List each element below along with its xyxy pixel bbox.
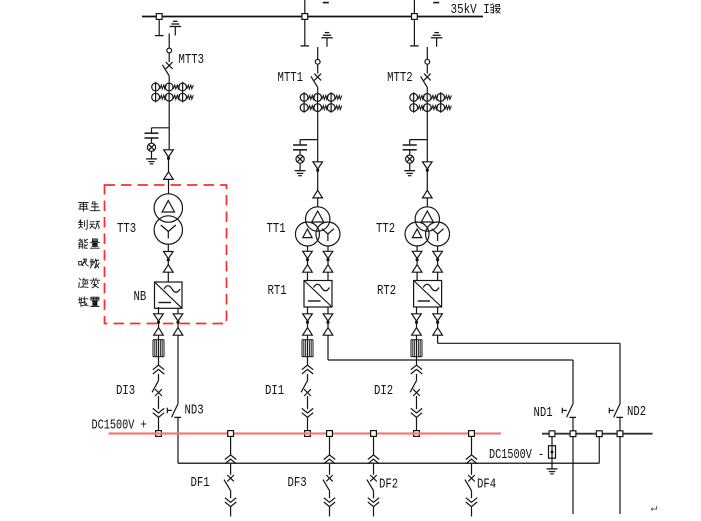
drawout contact (down) RT2 neg [433, 314, 443, 321]
drawout chevron contacts (down) DF3 [324, 498, 335, 503]
wire MTT3 contact gap [168, 159, 170, 172]
wire MTT3 circle to breaker [168, 53, 170, 62]
disconnector stem below MTT3 node [155, 19, 164, 35]
current transformer group MTT2 [410, 92, 452, 113]
feeder breaker DF2 [367, 475, 377, 490]
svg-text:DF2: DF2 [379, 476, 398, 492]
wire DF4 tail [471, 507, 473, 517]
wire MTT2 circle to breaker [426, 64, 428, 73]
circuit breaker MTT3 [162, 62, 172, 75]
drawout chevron contacts (down) DI1 [302, 408, 313, 413]
drawout contact (up) RT1 neg [323, 328, 333, 336]
wire ND3 to negative bus corner [177, 417, 179, 463]
wire TT1 left secondary [307, 246, 309, 251]
drawout contact (down) MTT2 [423, 162, 433, 169]
svg-text:MTT2: MTT2 [387, 70, 413, 86]
wire DF3 down [329, 436, 331, 455]
wire MTT2 to transformer [426, 198, 428, 207]
regenerative braking device boundary (red dashed box) [105, 185, 227, 324]
wire gap DI2 [416, 323, 418, 328]
svg-text:TT1: TT1 [267, 221, 286, 237]
surge capacitor + indicator lamp + earth (MTT3) [145, 128, 170, 164]
wire resistor to chevron DI1 [307, 357, 309, 365]
drawout contact (up) RT2 right in [433, 265, 443, 273]
smoothing reactor (hatched) DI3 column [153, 340, 164, 357]
wire MTT1 contact gap [317, 171, 319, 191]
bus node MTT3 [156, 14, 162, 20]
DC 1500V positive busbar [109, 432, 501, 434]
svg-text:35kV I: 35kV I [451, 2, 490, 18]
wire fuse to earth [551, 458, 553, 469]
svg-text:DC1500V -: DC1500V - [489, 446, 544, 462]
DC bus node DI1 column [305, 431, 311, 437]
wire ND1 drop [572, 360, 574, 404]
wire DF2 to chevron [373, 490, 375, 498]
wire DF4 to chevron [471, 490, 473, 498]
drawout contact (down) TT2 left [412, 251, 422, 258]
wire into NB box [167, 272, 169, 282]
wire MTT1 to transformer [317, 198, 319, 207]
wire gap RT2 neg [437, 323, 439, 328]
wire TT2 left secondary [416, 246, 418, 251]
wire resistor to chevron DI3 [158, 357, 160, 365]
DC bus node DF3 [327, 431, 333, 437]
wire RT1 neg down [327, 335, 329, 360]
incoming line riser to MTT2 bus node [413, 0, 415, 17]
disconnector stem below MTT1 node [301, 19, 310, 46]
svg-text:DI1: DI1 [265, 383, 284, 399]
wire MTT2 breaker to CTs [426, 87, 428, 92]
drawout contact (up) DI1 [303, 328, 313, 336]
drawout chevron contacts (down) DF4 [466, 498, 477, 503]
svg-text:DC1500V +: DC1500V + [92, 417, 147, 433]
drawout chevron contacts (up) DF1 [225, 455, 236, 460]
drawout contact (down) NB neg [173, 314, 183, 321]
wire MTT3 branch to contact [168, 128, 170, 150]
drawout chevron contacts (up) DF4 [466, 455, 477, 460]
wire DF1 tail [230, 507, 232, 517]
wire TT1 right secondary [327, 246, 329, 251]
feeder breaker DF1 [224, 475, 234, 490]
drawout contact (up) RT1 left in [303, 265, 313, 273]
wire DF3 through negative bus [329, 464, 331, 475]
svg-text:↵: ↵ [651, 501, 658, 515]
earth at drainage device [547, 469, 558, 474]
wire gap RT1 neg [327, 323, 329, 328]
wire MTT3 breaker to CTs [168, 76, 170, 82]
svg-text:RT2: RT2 [377, 283, 396, 299]
DC bus node DF2 [371, 431, 377, 437]
wire MTT1 breaker to CTs [317, 87, 319, 92]
DC breaker DI3 [152, 381, 162, 396]
drawout contact (up) NB neg [173, 328, 183, 336]
wire gap TT2 right [437, 260, 439, 264]
drawout contact (up) RT2 neg [433, 328, 443, 336]
wire gap TT1 right [327, 260, 329, 264]
smoothing reactor (hatched) DI1 column [302, 340, 313, 357]
drawout contact (up) RT1 right in [323, 265, 333, 273]
rectifier unit RT2 [414, 281, 442, 308]
wire MTT1 circle to breaker [317, 64, 319, 73]
svg-text:MTT3: MTT3 [179, 52, 205, 68]
wire gap TT3-NB [167, 260, 169, 264]
current transformer group MTT1 [300, 92, 342, 113]
disconnector stem below MTT2 node [410, 19, 419, 46]
svg-text:DI3: DI3 [116, 383, 135, 399]
circuit breaker MTT1 [311, 74, 321, 87]
drawout contact (up) MTT1 [313, 190, 323, 198]
earth symbol beside MTT1 [321, 33, 332, 47]
wire DI2 to DC bus [416, 417, 418, 433]
node negative riser [596, 431, 602, 437]
smoothing reactor (hatched) DI2 column [411, 340, 422, 357]
truck contact circle MTT1 [315, 59, 320, 64]
wire DF1 to chevron [230, 490, 232, 498]
drawout chevron contacts (up) DF3 [324, 455, 335, 460]
wire DI2 box out [416, 307, 418, 314]
annotation 再生制动能量吸收逆变装置 (vertical text) [78, 201, 99, 306]
DC bus node DI2 column [414, 431, 420, 437]
wire resistor to chevron DI2 [416, 357, 418, 365]
svg-text:DF3: DF3 [288, 475, 307, 491]
svg-text:NB: NB [134, 289, 147, 305]
wire gap DI1 [307, 323, 309, 328]
earth symbol beside MTT3 [170, 21, 181, 35]
wire ND1 to negative busbar [572, 417, 574, 433]
wire chevron to breaker DI3 [158, 374, 160, 381]
wire DF3 tail [329, 507, 331, 517]
drawout contact (down) MTT3 [164, 150, 174, 157]
wire into RT1 right [327, 272, 329, 280]
drawout contact (down) TT2 right [433, 251, 443, 258]
DC negative return bus [178, 462, 599, 464]
wire MTT2 feeder head [426, 47, 428, 59]
DC bus node DF1 [228, 431, 234, 437]
wire gap TT1 left [307, 260, 309, 264]
wire DF2 through negative bus [373, 464, 375, 475]
feeder breaker DF4 [465, 475, 475, 490]
wire chevron to breaker DI1 [307, 374, 309, 381]
wire TT3 to contact [167, 244, 169, 251]
DC breaker DI2 [410, 381, 420, 396]
disconnector ND2 [609, 404, 623, 418]
wire RT2 neg run to ND2 [438, 342, 620, 344]
wire MTT3 to TT3 [168, 179, 170, 194]
drainage device fuse [549, 437, 556, 459]
drawout chevron contacts (down) DI2 [411, 408, 422, 413]
drawout contact (up) MTT2 [423, 190, 433, 198]
wire into resistor DI3 [158, 335, 160, 340]
DC bus node DI3 column [156, 431, 162, 437]
drawout contact (down) TT1 right [323, 251, 333, 258]
circuit breaker MTT2 [421, 74, 431, 87]
wire RT2 negative output [437, 307, 439, 314]
wire ND2 to negative busbar [619, 417, 621, 433]
feeder breaker DF3 [323, 475, 333, 490]
wire DF1 through negative bus [230, 464, 232, 475]
inverter unit NB [155, 282, 183, 308]
wire DF2 down [373, 436, 375, 455]
bus node MTT1 [302, 14, 308, 20]
drawout contact (up) DI2 [412, 328, 422, 336]
wire DF3 to chevron [329, 490, 331, 498]
disconnector ND3 [167, 404, 181, 418]
wire MTT2 contact gap [426, 171, 428, 191]
drawout chevron contacts (down) DF2 [368, 498, 379, 503]
rail connection below ND1 [572, 437, 574, 514]
svg-text:DI2: DI2 [374, 383, 393, 399]
wire into RT1 left [307, 272, 309, 280]
surge capacitor + indicator lamp + earth (MTT2) [403, 140, 428, 176]
rectifier unit RT1 [304, 281, 332, 308]
drawout contact (down) RT1 neg [323, 314, 333, 321]
bus node MTT2 [412, 14, 418, 20]
svg-text:ND2: ND2 [627, 404, 646, 420]
wire RT1 neg run to ND1 [328, 359, 573, 361]
wire ND2 drop [619, 343, 621, 404]
drawout contact (up) DI3 [154, 328, 164, 336]
disconnector ND1 [562, 404, 576, 418]
drawout chevron contacts (up) DF2 [368, 455, 379, 460]
svg-text:DF4: DF4 [477, 476, 496, 492]
wire DI1 box out [307, 307, 309, 314]
drawout contact (down) below TT3 [164, 252, 174, 259]
transformer TT2 [405, 207, 450, 246]
wire into RT2 right [437, 272, 439, 280]
wire MTT3 CT to surge branch [168, 102, 170, 127]
wire into resistor DI1 [307, 335, 309, 340]
wire MTT2 CT to surge branch [426, 113, 428, 140]
drawout chevron contacts (up) DI3 [153, 365, 164, 370]
surge capacitor + indicator lamp + earth (MTT1) [293, 140, 318, 176]
wire DF4 through negative bus [471, 464, 473, 475]
wire RT2 neg down [437, 335, 439, 343]
wire DI3 to DC bus [158, 417, 160, 433]
35kV bus I section busbar [142, 16, 483, 18]
wire DI1 to DC bus [307, 417, 309, 433]
drawout contact (down) TT1 left [303, 251, 313, 258]
drawout contact (down) DI2 top [412, 314, 422, 321]
drawout chevron contacts (down) DI3 [153, 408, 164, 413]
node ND1 on negative busbar [570, 431, 576, 437]
wire DI3 box out [158, 307, 160, 314]
wire into RT2 left [416, 272, 418, 280]
current transformer group MTT3 [152, 82, 194, 103]
truck contact circle MTT2 [425, 59, 430, 64]
DC bus node DF4 [469, 431, 475, 437]
wire RT1 negative output [327, 307, 329, 314]
wire MTT1 branch to contact [317, 140, 319, 162]
wire MTT3 feeder head [168, 34, 170, 49]
wire gap TT2 left [416, 260, 418, 264]
svg-text:MTT1: MTT1 [278, 70, 304, 86]
negative bus riser [598, 434, 600, 464]
negative busbar (right section) [542, 433, 653, 435]
wire MTT2 branch to contact [426, 140, 428, 162]
wire NB neg to ND3 [177, 335, 179, 404]
truck contact circle MTT3 [167, 48, 172, 53]
phase dash mark near MTT1 riser [323, 2, 329, 4]
wire NB negative output [177, 308, 179, 314]
wire breaker to chevron DI2 [416, 396, 418, 409]
earth symbol beside MTT2 [431, 33, 442, 47]
rail connection below ND2 [619, 437, 621, 514]
svg-text:RT1: RT1 [268, 283, 287, 299]
drawout contact (down) DI3 top [154, 314, 164, 321]
wire DF2 tail [373, 507, 375, 517]
DC breaker DI1 [301, 381, 311, 396]
drawout contact (up) above NB [164, 265, 174, 273]
svg-text:ND3: ND3 [185, 402, 204, 418]
drawout chevron contacts (up) DI1 [302, 365, 313, 370]
wire gap NB neg [177, 323, 179, 328]
wire DF4 down [471, 436, 473, 455]
drawout chevron contacts (down) DF1 [225, 498, 236, 503]
rectifier transformer TT3 [154, 194, 182, 244]
wire MTT1 feeder head [317, 47, 319, 59]
svg-text:TT2: TT2 [376, 221, 395, 237]
phase dash mark near MTT2 riser [433, 2, 439, 4]
wire breaker to chevron DI3 [158, 396, 160, 409]
node fuse tap [549, 431, 555, 437]
drawout chevron contacts (up) DI2 [411, 365, 422, 370]
wire breaker to chevron DI1 [307, 396, 309, 409]
wire gap DI3 [158, 323, 160, 328]
wire chevron to breaker DI2 [416, 374, 418, 381]
transformer TT1 [295, 207, 340, 246]
wire DF1 down [230, 436, 232, 455]
svg-text:DF1: DF1 [191, 475, 210, 491]
svg-text:TT3: TT3 [117, 221, 136, 237]
drawout contact (down) MTT1 [313, 162, 323, 169]
drawout contact (down) DI1 top [303, 314, 313, 321]
drawout contact (up) RT2 left in [412, 265, 422, 273]
drawout contact (up) MTT3 [164, 172, 174, 180]
node ND2 on negative busbar [617, 431, 623, 437]
incoming line riser to MTT1 bus node [304, 0, 306, 17]
wire TT2 right secondary [437, 246, 439, 251]
wire into resistor DI2 [416, 335, 418, 340]
wire MTT1 CT to surge branch [317, 113, 319, 140]
svg-text:ND1: ND1 [534, 405, 553, 421]
